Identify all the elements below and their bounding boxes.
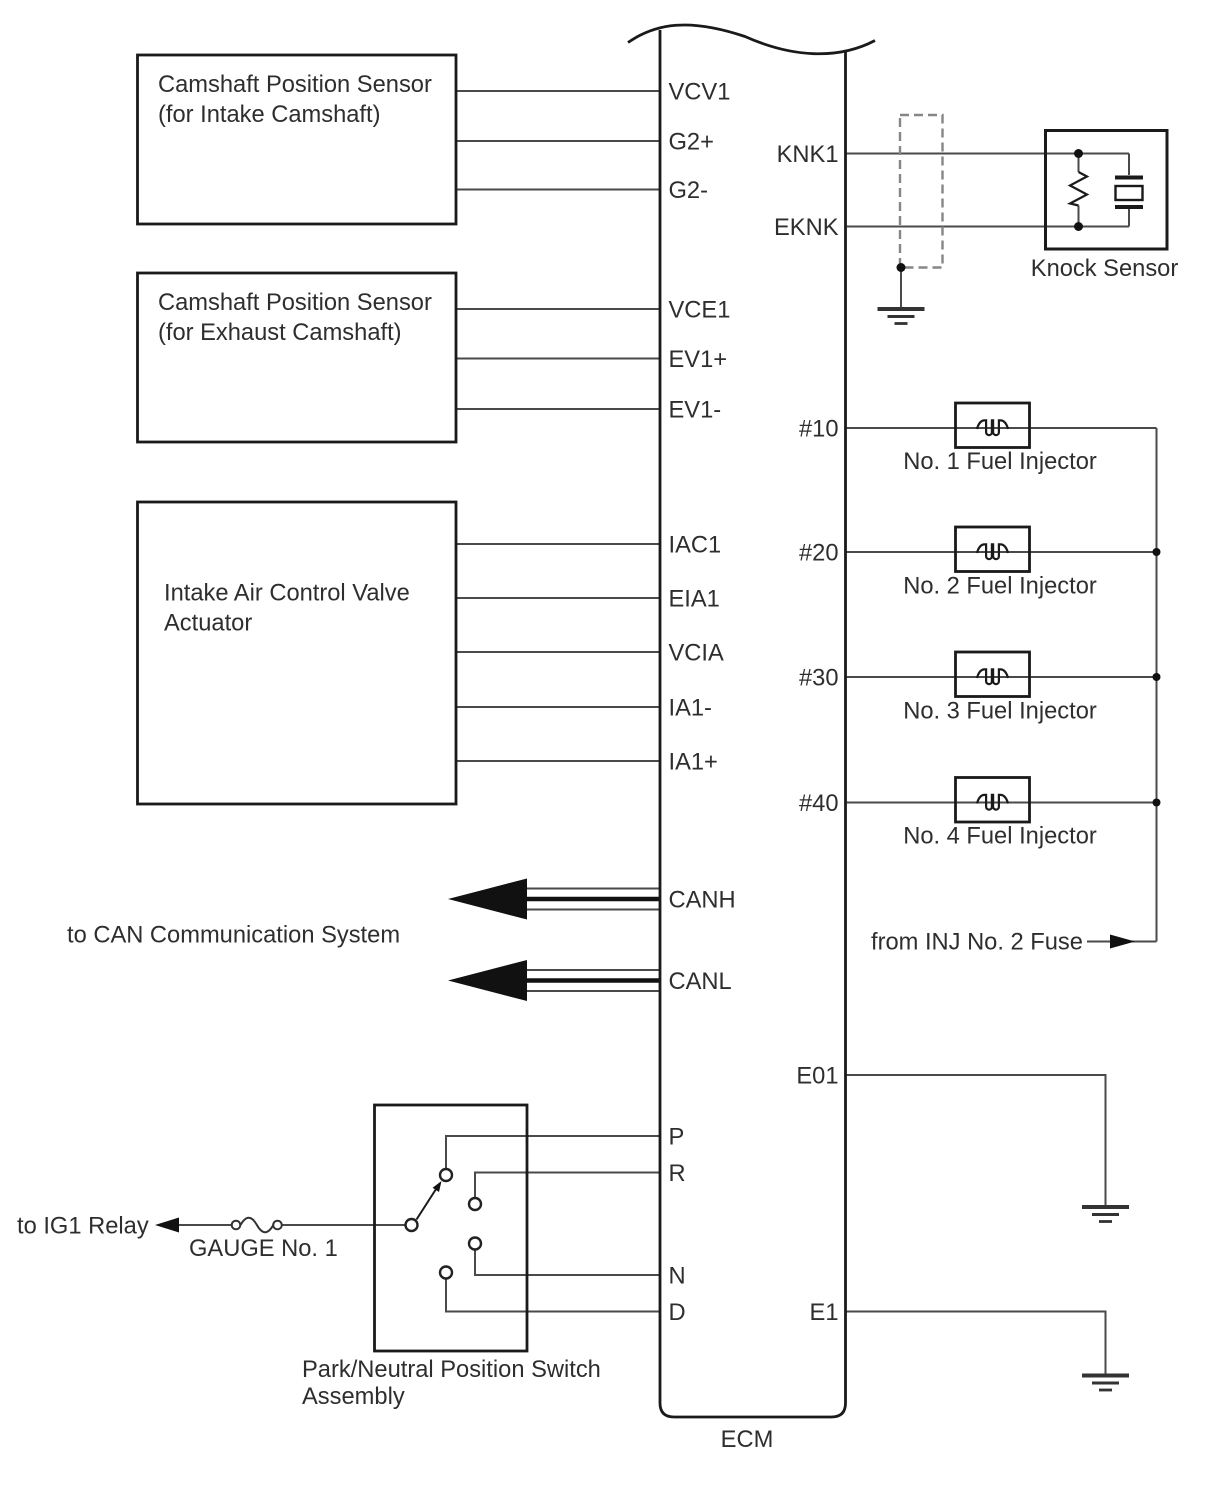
svg-text:#40: #40 <box>799 791 839 817</box>
svg-text:CANH: CANH <box>669 888 736 914</box>
svg-text:ECM: ECM <box>721 1427 774 1453</box>
svg-text:EIA1: EIA1 <box>669 587 720 613</box>
svg-text:G2+: G2+ <box>669 130 714 156</box>
svg-text:VCV1: VCV1 <box>669 80 731 106</box>
svg-text:E01: E01 <box>796 1064 838 1090</box>
svg-text:VCIA: VCIA <box>669 641 724 667</box>
svg-text:IA1+: IA1+ <box>669 750 718 776</box>
svg-text:#30: #30 <box>799 666 839 692</box>
svg-text:No. 4 Fuel Injector: No. 4 Fuel Injector <box>903 824 1097 850</box>
svg-text:Camshaft Position Sensor: Camshaft Position Sensor <box>158 290 432 316</box>
svg-text:N: N <box>669 1264 686 1290</box>
svg-text:(for Intake Camshaft): (for Intake Camshaft) <box>158 102 380 128</box>
svg-text:KNK1: KNK1 <box>777 142 839 168</box>
svg-text:CANL: CANL <box>669 969 732 995</box>
svg-text:GAUGE No. 1: GAUGE No. 1 <box>189 1236 338 1262</box>
svg-text:D: D <box>669 1300 686 1326</box>
svg-text:EV1-: EV1- <box>669 398 722 424</box>
svg-text:G2-: G2- <box>669 178 709 204</box>
svg-text:No. 3 Fuel Injector: No. 3 Fuel Injector <box>903 699 1097 725</box>
svg-text:VCE1: VCE1 <box>669 298 731 324</box>
svg-text:Actuator: Actuator <box>164 611 252 637</box>
svg-text:#20: #20 <box>799 541 839 567</box>
svg-text:P: P <box>669 1125 685 1151</box>
svg-text:Park/Neutral Position Switch: Park/Neutral Position Switch <box>302 1357 601 1383</box>
svg-text:No. 1 Fuel Injector: No. 1 Fuel Injector <box>903 449 1097 475</box>
svg-text:IA1-: IA1- <box>669 696 712 722</box>
svg-text:Intake Air Control Valve: Intake Air Control Valve <box>164 581 410 607</box>
svg-text:Assembly: Assembly <box>302 1384 405 1410</box>
svg-text:from INJ No. 2 Fuse: from INJ No. 2 Fuse <box>871 930 1083 956</box>
svg-text:Knock Sensor: Knock Sensor <box>1031 256 1179 282</box>
svg-text:to IG1 Relay: to IG1 Relay <box>17 1214 149 1240</box>
svg-text:(for Exhaust Camshaft): (for Exhaust Camshaft) <box>158 320 402 346</box>
svg-text:#10: #10 <box>799 417 839 443</box>
svg-text:R: R <box>669 1161 686 1187</box>
svg-text:Camshaft Position Sensor: Camshaft Position Sensor <box>158 72 432 98</box>
svg-text:EV1+: EV1+ <box>669 347 728 373</box>
svg-text:No. 2 Fuel Injector: No. 2 Fuel Injector <box>903 574 1097 600</box>
svg-text:E1: E1 <box>810 1300 839 1326</box>
svg-text:IAC1: IAC1 <box>669 533 722 559</box>
svg-text:to CAN Communication System: to CAN Communication System <box>67 923 400 949</box>
svg-text:EKNK: EKNK <box>774 215 839 241</box>
